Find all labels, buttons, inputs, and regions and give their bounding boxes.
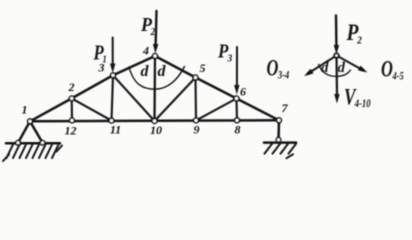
svg-text:10: 10 [150,123,162,137]
diagonal member 10-5 [155,78,196,122]
node 3 [111,73,116,78]
diagonal member 9-6 [196,99,237,121]
left support pin left [16,141,21,146]
svg-text:4: 4 [142,44,149,58]
force P1 line [112,38,114,66]
right support roller pin [276,138,281,143]
force P1 arrowhead [110,64,115,74]
node 6 [234,96,239,101]
svg-text:d: d [321,60,329,76]
vertical member 2-12 [71,98,73,120]
svg-text:5: 5 [200,61,206,75]
svg-text:d: d [158,63,167,80]
svg-text:d: d [141,63,150,80]
svg-text:9: 9 [194,123,200,137]
bottom chord 1-12-11-10-9-8-7 [30,120,279,121]
left support ground line [6,142,60,145]
svg-text:2: 2 [68,80,75,94]
left support pin right [40,141,45,146]
force P3 arrowhead [234,85,239,95]
node 9 [194,118,199,123]
vertical member 6-8 [235,99,238,121]
node 8 [235,118,240,123]
top chord right 4-5-6-7 [155,56,279,120]
node 1 [28,119,33,124]
vertical member 3-11 [112,75,114,120]
FBD member O4-5 line [337,56,364,71]
vertical member 5-9 [194,78,197,121]
node 7 [277,118,282,123]
node 2 [69,96,74,101]
right support hatching [265,144,297,158]
vertical member 4-10 [153,56,156,121]
svg-text:7: 7 [282,101,289,115]
top chord left 1-2-3-4 [30,56,155,121]
FBD angle arc [319,64,351,76]
svg-text:8: 8 [235,123,241,137]
FBD arrow O4-5 [358,66,368,73]
svg-text:1: 1 [22,103,28,117]
force P2 line [154,11,157,46]
right support ground line [264,141,296,144]
FBD arrow O3-4 [304,69,314,76]
FBD arrow V4-10 [334,94,339,104]
node 11 [109,118,114,123]
svg-text:11: 11 [110,123,121,137]
node 4 [153,54,158,59]
svg-text:6: 6 [240,85,246,99]
right support link 7 [277,120,280,140]
angle arc at node 4 [129,67,185,90]
FBD member V4-10 line [335,56,338,97]
node 5 [193,75,198,80]
svg-text:12: 12 [65,124,77,138]
FBD force P2 arrowhead [334,45,339,55]
diagonal member 3-10 [113,75,155,121]
FBD force P2 line [335,16,338,48]
FBD joint 4 [334,53,338,57]
svg-text:d: d [338,60,346,76]
FBD member O3-4 line [308,56,337,74]
node 10 [152,119,157,124]
force P2 arrowhead [153,44,158,54]
diagonal member 2-11 [72,98,112,120]
node 12 [70,118,75,123]
left support hatching [3,145,62,162]
force P3 line [236,47,238,87]
left support legs [18,121,43,143]
